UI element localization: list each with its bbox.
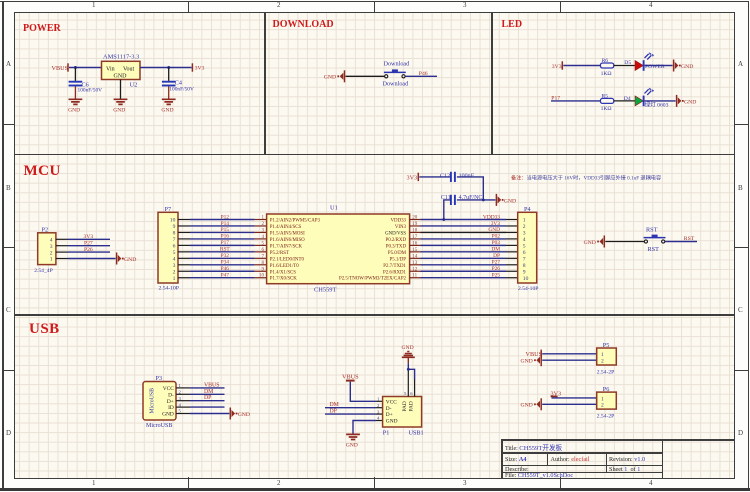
svg-text:P03: P03 xyxy=(492,240,501,246)
size row xyxy=(505,456,526,463)
wire U1 to P4 net VDD33 xyxy=(421,214,507,220)
svg-text:4: 4 xyxy=(523,237,526,243)
ground GND P2 xyxy=(117,253,137,265)
section divider MCU / USB xyxy=(15,314,734,316)
svg-text:GND: GND xyxy=(238,412,250,418)
wire P7 to U1 net P47 xyxy=(190,273,255,279)
svg-text:Vout: Vout xyxy=(123,67,135,73)
svg-text:4: 4 xyxy=(173,257,176,263)
svg-text:2.54-2P: 2.54-2P xyxy=(597,369,615,375)
connector P6 xyxy=(597,386,617,419)
row letters right xyxy=(738,60,743,68)
wire D5 to GND xyxy=(645,65,673,67)
ground GND LED row2 xyxy=(677,95,697,107)
svg-text:VBUS: VBUS xyxy=(52,65,69,72)
power port 3V3 (LED row 1) xyxy=(552,61,563,70)
svg-text:5: 5 xyxy=(523,244,526,250)
svg-text:GND: GND xyxy=(520,403,532,409)
svg-text:GND: GND xyxy=(324,75,336,81)
capacitor C4 symbol xyxy=(162,82,176,86)
connector P5 xyxy=(597,342,617,375)
outer sheet border bottom xyxy=(0,488,750,491)
svg-text:GND: GND xyxy=(681,64,693,70)
section divider top row / MCU xyxy=(15,154,734,156)
svg-text:1KΩ: 1KΩ xyxy=(601,71,612,77)
svg-text:5: 5 xyxy=(404,391,407,396)
svg-text:1KΩ: 1KΩ xyxy=(601,106,612,112)
title block frame lines xyxy=(501,439,734,441)
wire 3V3 to C12 xyxy=(419,176,451,178)
svg-text:GND: GND xyxy=(162,412,174,418)
svg-text:USB1: USB1 xyxy=(409,429,424,436)
svg-text:P6: P6 xyxy=(603,386,610,393)
svg-text:VCC: VCC xyxy=(163,386,174,392)
svg-text:P46: P46 xyxy=(221,266,230,272)
wire P7 to U1 net P14 xyxy=(190,221,255,227)
row ticks right xyxy=(734,124,748,125)
svg-text:P2.1/LED0/INT0: P2.1/LED0/INT0 xyxy=(270,257,305,262)
svg-text:1: 1 xyxy=(50,257,53,263)
svg-text:D5: D5 xyxy=(624,60,631,66)
capacitor C4 xyxy=(162,68,194,99)
wire 3V3 to R6 xyxy=(563,65,600,67)
USB1 left pin stubs xyxy=(376,401,383,420)
svg-text:GND: GND xyxy=(68,108,80,114)
capacitor C11 labels xyxy=(441,195,483,201)
svg-text:C11: C11 xyxy=(441,195,451,201)
ground GND under C4 xyxy=(161,99,175,113)
power port 3V3 (decoupling) xyxy=(407,173,419,182)
wire U1 to P4 net P25 xyxy=(421,273,507,279)
svg-text:P25: P25 xyxy=(492,273,501,279)
wire R6 to D5 xyxy=(614,65,635,67)
svg-text:RST: RST xyxy=(684,236,695,242)
column numbers bottom xyxy=(92,479,96,487)
svg-text:P3: P3 xyxy=(156,375,163,382)
svg-text:ID: ID xyxy=(168,405,174,411)
file row xyxy=(505,472,573,479)
svg-text:DM: DM xyxy=(330,402,339,408)
svg-text:P5.1/DP: P5.1/DP xyxy=(390,257,407,262)
outer sheet border top xyxy=(0,1,749,3)
svg-text:Download: Download xyxy=(384,60,411,67)
wire USB1 GND down xyxy=(353,421,376,434)
wire net DM to USB1 D- xyxy=(325,402,376,408)
wire GND to button xyxy=(346,75,385,77)
svg-text:1: 1 xyxy=(601,396,604,402)
svg-text:Vin: Vin xyxy=(106,67,115,73)
svg-text:2: 2 xyxy=(173,269,176,275)
ground GND above USB1 (inverted) xyxy=(402,345,415,369)
svg-text:PAD: PAD xyxy=(402,401,408,411)
svg-text:C4: C4 xyxy=(175,79,182,86)
svg-text:RST: RST xyxy=(646,227,658,234)
P2 pin stubs xyxy=(56,239,68,258)
svg-text:2.54_4P: 2.54_4P xyxy=(34,268,53,274)
svg-text:DP: DP xyxy=(204,395,211,401)
svg-text:Download: Download xyxy=(383,81,410,88)
svg-text:P46: P46 xyxy=(419,71,428,77)
capacitor C12 labels xyxy=(440,173,475,179)
wire C12 to GND corner xyxy=(457,177,483,200)
svg-text:D-: D- xyxy=(168,392,174,398)
svg-text:GND: GND xyxy=(114,74,128,80)
svg-text:P1: P1 xyxy=(383,429,390,436)
wire P3 D+ net DP xyxy=(190,395,225,401)
svg-text:D-: D- xyxy=(386,406,392,412)
wire VBUS to USB1 VCC xyxy=(350,382,376,402)
wire P7 to U1 net RST xyxy=(190,247,255,253)
ground GND P3 xyxy=(230,408,250,420)
section title MCU xyxy=(24,163,61,180)
svg-text:GND: GND xyxy=(402,345,414,351)
wire GND to P6 pin2 xyxy=(542,403,596,405)
svg-text:7: 7 xyxy=(173,237,176,243)
resistor R5 xyxy=(600,93,613,112)
svg-text:10: 10 xyxy=(523,276,529,282)
svg-text:7: 7 xyxy=(523,257,526,263)
svg-text:P1.4/X1/SCS: P1.4/X1/SCS xyxy=(270,270,297,275)
svg-text:备注：当电源电压大于 16V时，VDD33引脚应外接 0.1: 备注：当电源电压大于 16V时，VDD33引脚应外接 0.1uF 退耦电容 xyxy=(511,173,661,181)
svg-text:3V3: 3V3 xyxy=(84,234,94,240)
header P4 xyxy=(518,206,539,292)
wire P2 pin1 to GND xyxy=(68,258,116,260)
describe row xyxy=(505,466,529,473)
row letters left xyxy=(6,60,11,68)
svg-text:3V3: 3V3 xyxy=(407,174,418,181)
wire P3 GND xyxy=(190,413,229,415)
svg-text:3: 3 xyxy=(50,244,53,250)
svg-text:2: 2 xyxy=(601,403,604,409)
svg-text:VBUS: VBUS xyxy=(204,382,219,388)
svg-text:10: 10 xyxy=(259,274,265,279)
wire U1 to P4 net DM xyxy=(421,247,507,253)
svg-text:DP: DP xyxy=(493,253,500,259)
title block xyxy=(501,439,734,478)
svg-text:GND: GND xyxy=(504,198,516,204)
ground GND download xyxy=(324,70,345,82)
U1 left pin numbers xyxy=(259,216,265,279)
wire GND to P5 pin2 xyxy=(542,359,596,361)
wire P7 to U1 net P32 xyxy=(190,253,255,259)
wire U1 to P4 net DP xyxy=(421,253,507,259)
svg-text:2.54-2P: 2.54-2P xyxy=(597,414,615,420)
svg-text:P27: P27 xyxy=(84,241,93,247)
svg-text:P2.6/RXD1: P2.6/RXD1 xyxy=(383,270,407,275)
svg-text:AMS1117-3.3: AMS1117-3.3 xyxy=(103,53,139,60)
wire button to P46 xyxy=(405,75,437,77)
svg-text:3V3: 3V3 xyxy=(195,66,205,72)
P3 pin stubs xyxy=(176,388,190,414)
LED D4 green xyxy=(624,88,669,109)
svg-text:VDD33: VDD33 xyxy=(483,214,500,220)
capacitor C11 leads xyxy=(444,200,451,220)
junction VDD33 / C11 xyxy=(442,218,445,221)
svg-text:VIN3: VIN3 xyxy=(395,225,407,230)
svg-text:P0.2/RXD: P0.2/RXD xyxy=(385,238,406,243)
capacitor C12 symbol xyxy=(451,172,455,182)
wire GND to RST button xyxy=(605,241,644,243)
ground GND decoupling xyxy=(496,194,516,206)
svg-text:9: 9 xyxy=(523,269,526,275)
P7 pin stubs xyxy=(178,220,190,278)
svg-text:P1.2/AIN2/PWM5/CAP3: P1.2/AIN2/PWM5/CAP3 xyxy=(270,219,321,224)
wire net DP to USB1 D+ xyxy=(325,409,376,415)
power port VBUS (P5) xyxy=(526,350,543,359)
svg-text:C12: C12 xyxy=(440,173,450,179)
wire U1 to P4 net GND xyxy=(421,227,507,233)
capacitor C11 symbol xyxy=(451,195,455,205)
wire P3 ID xyxy=(190,406,225,408)
P4 pin stubs xyxy=(506,220,518,278)
svg-text:P5.2/RST: P5.2/RST xyxy=(270,251,289,256)
svg-text:VBUS: VBUS xyxy=(526,351,543,358)
wire P2 pin3 net P27 xyxy=(68,241,111,247)
wire P7 to U1 net P17 xyxy=(190,240,255,246)
svg-text:9: 9 xyxy=(173,224,176,230)
svg-text:VDD33: VDD33 xyxy=(391,219,407,224)
P3 pin numbers xyxy=(179,383,182,414)
svg-text:GND: GND xyxy=(584,240,596,246)
connector P2 xyxy=(34,226,56,273)
svg-text:10: 10 xyxy=(170,218,176,224)
wire R5 to D4 xyxy=(614,100,635,102)
power port 3V3 (P6) xyxy=(551,390,562,397)
wire VBUS to U2 Vin xyxy=(69,66,102,69)
section divider POWER/DOWNLOAD xyxy=(264,13,266,155)
svg-text:P15: P15 xyxy=(221,227,230,233)
svg-text:3V3: 3V3 xyxy=(552,64,562,70)
push button Download xyxy=(384,69,406,78)
svg-text:4: 4 xyxy=(50,238,53,244)
svg-text:3: 3 xyxy=(523,231,526,237)
svg-text:100nF/50V: 100nF/50V xyxy=(78,88,103,94)
P7 pin numbers xyxy=(170,218,176,282)
wire U1 to P4 net P26 xyxy=(421,266,507,272)
svg-text:P0.3/TXD: P0.3/TXD xyxy=(386,244,407,249)
svg-text:U2: U2 xyxy=(130,81,138,88)
section title DOWNLOAD xyxy=(273,19,334,30)
wire P7 to U1 net P12 xyxy=(190,214,255,220)
svg-text:P12: P12 xyxy=(221,214,230,220)
resistor R6 xyxy=(600,58,613,77)
svg-text:3V3: 3V3 xyxy=(491,221,501,227)
svg-text:GND: GND xyxy=(684,99,696,105)
wire P7 to U1 net P15 xyxy=(190,227,255,233)
svg-text:2.54-10P: 2.54-10P xyxy=(518,286,538,292)
title row xyxy=(505,442,562,452)
svg-text:P1.7/AIN7/SCK: P1.7/AIN7/SCK xyxy=(270,244,303,249)
svg-text:P17: P17 xyxy=(221,240,230,246)
header P7 xyxy=(158,206,179,291)
svg-text:2: 2 xyxy=(601,359,604,365)
svg-text:100nF/50V: 100nF/50V xyxy=(169,87,194,93)
LED D5 red xyxy=(624,52,665,71)
svg-text:6: 6 xyxy=(410,391,413,396)
wire U1 to P4 net P27 xyxy=(421,260,507,266)
power port VBUS (USB1) xyxy=(342,374,359,381)
svg-text:DP: DP xyxy=(330,409,337,415)
svg-text:GND: GND xyxy=(161,108,173,114)
svg-text:R5: R5 xyxy=(602,93,609,99)
svg-text:PAD: PAD xyxy=(409,401,415,411)
svg-text:GND: GND xyxy=(520,359,532,365)
svg-text:6: 6 xyxy=(523,250,526,256)
svg-text:DM: DM xyxy=(204,389,213,395)
wire P7 to U1 net P34 xyxy=(190,260,255,266)
wire P2 pin4 net 3V3 xyxy=(68,234,111,240)
svg-text:P32: P32 xyxy=(221,253,230,259)
wire C11 to GND xyxy=(457,198,496,201)
svg-text:P1.5/AIN5/MOSI: P1.5/AIN5/MOSI xyxy=(270,231,305,236)
power port 3V3 output xyxy=(192,63,204,71)
U1 right pin numbers xyxy=(412,216,418,279)
column numbers top xyxy=(92,1,96,9)
svg-text:GND: GND xyxy=(124,257,136,263)
wire U1 to P4 net 3V3 xyxy=(421,221,507,227)
P3 pin names xyxy=(162,386,174,418)
svg-text:1: 1 xyxy=(173,276,176,282)
push button RST xyxy=(644,235,666,243)
USB1 pin numbers left xyxy=(377,397,380,421)
svg-text:2: 2 xyxy=(50,250,53,256)
svg-text:1: 1 xyxy=(523,218,526,224)
svg-text:8: 8 xyxy=(173,231,176,237)
svg-text:D4: D4 xyxy=(624,96,631,102)
P2 pin numbers xyxy=(50,238,53,263)
svg-text:2.54-10P: 2.54-10P xyxy=(159,285,179,291)
wire 3V3 to P6 pin1 xyxy=(552,397,597,399)
ground GND USB1 bottom xyxy=(346,434,360,448)
svg-text:6: 6 xyxy=(173,244,176,250)
svg-text:绿灯 0603: 绿灯 0603 xyxy=(645,101,669,109)
svg-text:P1.7/X0/SCK: P1.7/X0/SCK xyxy=(270,277,298,282)
wire U1 to P4 net P03 xyxy=(421,240,507,246)
wire P2 pin2 net P26 xyxy=(68,247,111,253)
U2 GND pin lead xyxy=(120,80,122,99)
ground GND P6 xyxy=(520,398,541,410)
svg-text:P16: P16 xyxy=(221,234,230,240)
wire P17 to R5 xyxy=(551,100,600,102)
svg-text:GND: GND xyxy=(386,419,398,425)
P4 pin numbers xyxy=(523,218,529,282)
power port VBUS xyxy=(52,63,69,72)
svg-text:GND: GND xyxy=(488,227,500,233)
svg-text:P2.5/TNOW/PWM3/T2EX/CAP2: P2.5/TNOW/PWM3/T2EX/CAP2 xyxy=(339,277,407,282)
capacitor C6 symbol xyxy=(69,82,83,86)
U1 left pin names xyxy=(270,219,321,282)
MCU U1 CH559T xyxy=(267,204,410,293)
svg-text:RST: RST xyxy=(220,247,231,253)
wire P3 D- net DM xyxy=(190,389,225,395)
svg-text:P5.0/DM: P5.0/DM xyxy=(388,251,407,256)
svg-text:P4: P4 xyxy=(524,206,531,213)
svg-text:P02: P02 xyxy=(492,234,501,240)
ground GND P5 xyxy=(520,354,541,366)
U1 left pin stubs xyxy=(255,220,267,278)
svg-text:P1.6/LED1/T0: P1.6/LED1/T0 xyxy=(270,264,299,269)
svg-text:P2: P2 xyxy=(42,226,49,233)
U1 right pin names xyxy=(339,219,407,282)
svg-text:P5: P5 xyxy=(603,342,610,349)
svg-text:R6: R6 xyxy=(602,58,609,64)
svg-text:MicroUSB: MicroUSB xyxy=(150,388,156,414)
ground GND LED row1 xyxy=(674,60,694,72)
svg-text:5: 5 xyxy=(173,250,176,256)
wire U1 to P4 net P02 xyxy=(421,234,507,240)
column ticks bottom xyxy=(188,477,189,489)
section title USB xyxy=(29,321,60,338)
svg-text:P2.7/TXD1: P2.7/TXD1 xyxy=(383,264,406,269)
svg-text:DM: DM xyxy=(491,247,500,253)
wire P7 to U1 net P46 xyxy=(190,266,255,272)
ground GND under C6 xyxy=(68,99,82,113)
svg-text:GND: GND xyxy=(346,443,358,449)
svg-text:MicroUSB: MicroUSB xyxy=(146,423,172,429)
USB socket USB1 xyxy=(383,397,424,437)
svg-text:P26: P26 xyxy=(492,266,501,272)
capacitor C6 xyxy=(69,68,103,99)
section divider DOWNLOAD/LED xyxy=(491,13,493,155)
section title POWER xyxy=(23,23,61,34)
svg-text:3: 3 xyxy=(173,263,176,269)
svg-text:VCC: VCC xyxy=(386,399,397,405)
wire P3 VCC net VBUS xyxy=(190,382,225,388)
svg-text:CH559T: CH559T xyxy=(314,287,336,294)
USB1 shield pads to GND xyxy=(404,368,415,397)
outer sheet border left xyxy=(2,1,4,490)
svg-text:D+: D+ xyxy=(167,399,174,405)
svg-text:2: 2 xyxy=(523,224,526,230)
column ticks top xyxy=(188,2,189,13)
svg-text:U1: U1 xyxy=(330,204,338,211)
svg-text:1: 1 xyxy=(601,352,604,358)
svg-text:P1.4/AIN4/SCS: P1.4/AIN4/SCS xyxy=(270,225,302,230)
svg-text:P26: P26 xyxy=(84,247,93,253)
section title LED xyxy=(502,19,523,30)
wire button to RST net xyxy=(665,241,697,243)
connector P3 MicroUSB xyxy=(143,375,176,429)
svg-text:P7: P7 xyxy=(165,206,172,213)
svg-text:GND/VSS: GND/VSS xyxy=(385,231,406,236)
outer sheet border right xyxy=(748,1,749,490)
wire U2 Vout to 3V3 xyxy=(140,66,192,69)
U1 right pin stubs xyxy=(410,220,421,278)
ground GND under U2 xyxy=(113,99,127,113)
wire D4 to GND xyxy=(645,100,676,102)
svg-text:P47: P47 xyxy=(221,273,230,279)
ground GND RST xyxy=(584,236,605,248)
svg-text:P34: P34 xyxy=(221,260,230,266)
regulator U2 AMS1117-3.3 xyxy=(102,53,141,88)
wire P7 to U1 net P16 xyxy=(190,234,255,240)
svg-text:P14: P14 xyxy=(221,221,230,227)
svg-text:D+: D+ xyxy=(386,412,393,418)
svg-text:P27: P27 xyxy=(492,260,501,266)
row ticks left xyxy=(3,124,15,125)
svg-text:RST: RST xyxy=(648,246,660,253)
svg-text:8: 8 xyxy=(523,263,526,269)
svg-text:GND: GND xyxy=(113,108,125,114)
wire VBUS to P5 pin1 xyxy=(542,353,596,355)
svg-text:P1.6/AIN6/MISO: P1.6/AIN6/MISO xyxy=(270,238,305,243)
